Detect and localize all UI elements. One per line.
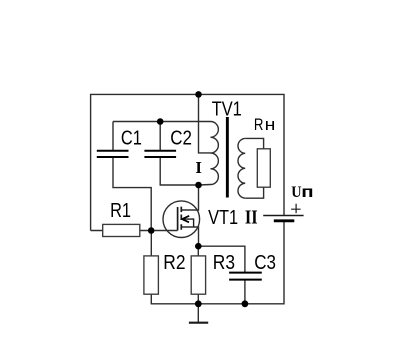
svg-text:II: II [245, 206, 258, 228]
svg-text:C1: C1 [121, 126, 142, 149]
svg-text:R1: R1 [110, 198, 131, 221]
svg-text:п: п [301, 182, 313, 200]
svg-text:R3: R3 [213, 251, 235, 273]
svg-text:I: I [195, 158, 202, 177]
svg-text:VT1: VT1 [208, 205, 238, 228]
svg-text:н: н [265, 115, 276, 133]
svg-text:U: U [291, 183, 301, 201]
svg-text:C2: C2 [170, 126, 192, 149]
svg-text:R: R [254, 115, 264, 134]
svg-text:C3: C3 [254, 251, 276, 274]
svg-text:TV1: TV1 [212, 97, 242, 120]
svg-text:R2: R2 [163, 251, 185, 273]
